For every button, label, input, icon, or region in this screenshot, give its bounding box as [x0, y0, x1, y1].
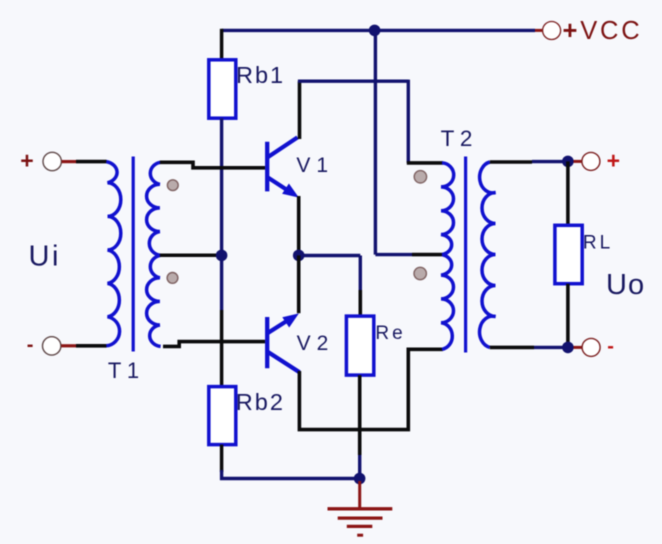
junction: center tap / Rb divider: [216, 250, 228, 262]
resistor Rb1: [209, 60, 236, 118]
junction: output - node: [562, 342, 574, 354]
resistor Re: [346, 316, 373, 375]
transformer T2 primary winding upper half: [441, 163, 454, 255]
transformer T1 primary winding: [106, 162, 120, 346]
svg-text:-: -: [27, 334, 34, 356]
transformer T1 core: [132, 157, 135, 352]
wire: T1 center tap to junction: [160, 254, 218, 258]
wire: input - to T1 primary: [76, 344, 107, 348]
wire: [532, 160, 566, 163]
terminal output + circle: [582, 152, 600, 170]
wire: T2 secondary bottom to output -: [490, 346, 534, 350]
junction: emitter node: [293, 250, 305, 262]
svg-text:T1: T1: [108, 358, 145, 383]
svg-text:T2: T2: [441, 126, 478, 151]
wire: Rb1 bottom to center-tap junction: [220, 118, 223, 255]
wire: bottom ground run to ground node: [222, 470, 360, 479]
wire: red stub to VCC terminal: [535, 29, 543, 32]
svg-text:V1: V1: [296, 154, 334, 177]
wire: [358, 455, 361, 479]
wire: T1 secondary top to V1 base (with jog): [160, 162, 265, 168]
wire: junction down to Rb2 top: [220, 255, 223, 310]
terminal +VCC circle: [543, 22, 561, 40]
transformer T1 secondary winding upper half: [147, 162, 161, 255]
input terminal + circle: [43, 152, 61, 170]
junction: output + node: [562, 156, 574, 168]
wire: T2 secondary top to output +: [490, 160, 532, 164]
transistor V2: [267, 313, 299, 372]
wire: collector link across top: [298, 79, 408, 82]
svg-text:-: -: [607, 336, 614, 358]
wire: into T2 primary top: [407, 161, 443, 165]
V2 emitter diagonal: [268, 321, 288, 334]
transistor V1: [267, 137, 299, 197]
ground: [328, 481, 393, 535]
wire: V1 emitter down to emitter junction: [297, 196, 301, 255]
transformer T1 secondary winding lower half: [147, 255, 161, 346]
junction: ground node: [354, 473, 366, 485]
svg-text:Rb1: Rb1: [236, 62, 285, 88]
wire: input + to T1 primary: [76, 160, 107, 164]
wire: emitter node to Re column: [299, 254, 361, 257]
svg-text:V2: V2: [297, 332, 335, 355]
V1 emitter arrow: [282, 184, 299, 198]
svg-text:Re: Re: [375, 323, 405, 344]
V1 base bar: [265, 142, 269, 192]
wire: red stub output -: [574, 346, 583, 349]
wire: into T2 center tap: [412, 253, 443, 257]
svg-text:+: +: [607, 148, 620, 174]
wire: [375, 253, 412, 256]
wire: output + node down to RL: [566, 161, 570, 225]
wire: VCC drop to T2 center tap: [374, 30, 377, 254]
wire: VCC top rail: [222, 29, 535, 32]
wire: red stub output +: [574, 160, 583, 163]
wire: down to T2 primary top: [407, 80, 410, 163]
V2 collector diagonal: [268, 352, 300, 373]
T1 polarity dot lower: [167, 273, 178, 284]
svg-text:Ui: Ui: [29, 241, 61, 273]
V2 emitter arrow: [282, 313, 299, 327]
wire: V2 collector down/right/up to T2 primary bottom: [299, 349, 443, 429]
svg-text:Uo: Uo: [606, 269, 645, 301]
T2 polarity dot upper: [414, 171, 426, 183]
svg-text:+VCC: +VCC: [563, 17, 643, 45]
V1 collector diagonal: [268, 137, 298, 157]
T2 polarity dot lower: [414, 267, 426, 279]
transformer T2 secondary winding: [480, 162, 496, 347]
wire: rail corner down to Rb1 top: [220, 29, 224, 60]
transformer T2 primary winding lower half: [441, 255, 453, 350]
junction: VCC rail node: [369, 25, 381, 37]
wire: RL bottom to output - node: [566, 284, 570, 348]
svg-text:RL: RL: [583, 233, 613, 254]
wire: down to Re top: [359, 256, 362, 291]
wire: [534, 346, 566, 349]
wire: Re bottom to ground node: [358, 375, 362, 455]
wire: red stub input +: [62, 160, 76, 163]
input terminal - circle: [43, 337, 61, 355]
wire: V1 collector up: [298, 81, 302, 139]
transformer T2 core: [464, 157, 467, 353]
wire: emitter node down to V2 arrow: [297, 255, 301, 313]
resistor Rb2: [209, 387, 236, 445]
V2 base bar: [265, 317, 269, 368]
wire: red stub input -: [61, 344, 76, 347]
wire: [220, 310, 224, 387]
T1 polarity dot upper: [167, 180, 178, 191]
wire: Rb2 bottom to ground run: [220, 445, 224, 472]
V1 emitter diagonal: [268, 177, 288, 190]
wire: [358, 290, 362, 316]
wire: T1 secondary bottom to V2 base (with jog): [163, 342, 265, 347]
resistor RL: [555, 225, 582, 283]
svg-text:Rb2: Rb2: [236, 389, 285, 415]
svg-text:+: +: [20, 148, 33, 174]
terminal output - circle: [582, 338, 600, 356]
